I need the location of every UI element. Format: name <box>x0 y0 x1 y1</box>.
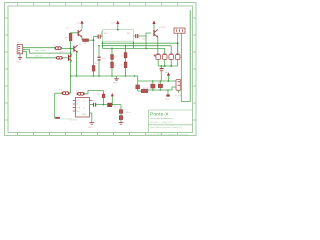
bus left end down to C5 <box>70 76 72 93</box>
wire X2 pin2 down right loop <box>180 33 182 101</box>
frame outer border <box>5 3 197 136</box>
svg-text:GND: GND <box>113 82 118 84</box>
output node wire <box>158 65 178 67</box>
output wire to pot chain <box>96 104 121 106</box>
right outer loop wire <box>181 10 190 102</box>
wire R1 top to Q1 base <box>71 32 78 34</box>
wire C6 right up to y90.5 line <box>85 91 104 94</box>
svg-text:Revisão 2 - Julho/2012: Revisão 2 - Julho/2012 <box>150 121 172 124</box>
wire pwm_lo with jog <box>23 52 56 58</box>
diode D6 between relay wires <box>151 81 155 90</box>
svg-text:GND: GND <box>88 127 93 129</box>
wire pwm top <box>23 47 55 49</box>
wire R1 bottom down across nets <box>70 41 72 76</box>
svg-text:pwm_lo: pwm_lo <box>35 56 43 58</box>
svg-text:(Data) (Hora) [Tamanho] (Sheet: (Data) (Hora) [Tamanho] (Sheet 1/1) <box>150 126 182 129</box>
svg-text:+12V: +12V <box>111 22 116 24</box>
capacitor C5 (two rings) <box>60 90 70 95</box>
svg-text:100k lin: 100k lin <box>124 112 131 114</box>
capacitor C6 (two rings) <box>76 90 85 95</box>
wire bus-end to C5 right <box>69 92 70 94</box>
IC1 right pin stub top <box>90 100 93 102</box>
connector JP2 <box>17 43 23 54</box>
node vertical x93.5 <box>93 37 95 66</box>
vcc arrow near output <box>111 93 114 105</box>
inductor L2 (two rings) <box>56 56 63 59</box>
svg-text:IC1 555: IC1 555 <box>70 119 78 121</box>
ring stems to output node <box>158 59 178 66</box>
resistor R1 vertical <box>65 28 72 41</box>
capacitor C2 right of box <box>134 34 147 40</box>
svg-text:THR: THR <box>76 107 81 109</box>
resistor R5 on stem <box>98 91 105 105</box>
resistor R8 between relay wires <box>157 81 162 90</box>
wire C5 left to label stem <box>55 92 62 94</box>
svg-text:10k: 10k <box>65 37 68 39</box>
svg-text:+12V: +12V <box>76 23 81 25</box>
vcc arrow above IC <box>111 20 119 30</box>
svg-text:printed with EAGLE free versio: printed with EAGLE free version www.cads… <box>146 133 189 136</box>
wire pwm mid with jog <box>23 50 71 54</box>
variable resistor X symbol <box>108 103 117 109</box>
relay wire upper <box>138 80 176 82</box>
IC box (pale) <box>103 30 134 42</box>
inductor L1 (two rings) <box>54 45 63 53</box>
IC1 bottom right wire to ground <box>88 113 94 129</box>
junction dots relay wires <box>152 80 154 82</box>
column x112 diode+resistor <box>111 48 118 76</box>
svg-text:D6: D6 <box>151 83 153 85</box>
resistor R4 <box>138 89 148 92</box>
column x99 capacitor <box>98 45 106 76</box>
svg-text:pwm_midrv: pwm_midrv <box>35 49 47 52</box>
vcc arrow to relay <box>167 72 170 81</box>
wire W2 <box>103 45 172 47</box>
label stem left of 555 <box>54 93 56 118</box>
wires from IC bottom to rings <box>102 41 104 48</box>
relay wire lower <box>148 87 176 90</box>
bus junctions <box>70 75 72 77</box>
title block frame <box>149 110 193 133</box>
wire W3 <box>103 48 165 50</box>
wire W1 <box>103 42 178 44</box>
net label tag monostavel <box>55 117 72 120</box>
column x125.5 diode+resistor <box>121 45 127 76</box>
junction R2/node <box>93 39 95 41</box>
junction R1/pwm_hi <box>70 48 72 50</box>
wire Q4 emitter down to ring1 <box>157 37 159 54</box>
svg-text:K1 12V: K1 12V <box>175 95 182 97</box>
frame inner border <box>8 6 193 133</box>
wire L2 to Q3 base <box>63 57 68 59</box>
wire Q1 emitter down <box>81 37 83 40</box>
transistor Q3 <box>62 53 72 61</box>
svg-text:100n: 100n <box>102 58 106 60</box>
svg-text:R8: R8 <box>157 83 159 85</box>
svg-text:R9: R9 <box>54 45 56 47</box>
wire X2 pin1 down to ring4 <box>177 33 179 53</box>
wire R2 to node <box>89 39 94 41</box>
svg-text:2k2: 2k2 <box>84 43 87 45</box>
svg-text:Ponte-X: Ponte-X <box>150 112 169 118</box>
frame ticks <box>5 3 197 136</box>
resistor R3 on x93.5 <box>92 63 98 71</box>
capacitor C1 <box>90 32 103 39</box>
wire Q2 emitter down to bus <box>76 52 78 76</box>
svg-text:GND: GND <box>82 114 87 116</box>
ground under relay wire <box>165 90 170 101</box>
capacitor C3 below output <box>160 66 168 81</box>
svg-text:GND: GND <box>16 61 21 63</box>
transistor Q1 <box>78 30 83 38</box>
transistor Q4 <box>145 27 166 39</box>
terminal block X2 <box>174 28 185 33</box>
svg-text:BC337: BC337 <box>159 27 166 29</box>
wire from C2 down/up to Q4 base <box>146 33 151 49</box>
svg-text:100n: 100n <box>164 72 168 74</box>
vcc arrow above Q4 <box>152 20 155 30</box>
ring pads M1..M4 <box>154 54 180 60</box>
relay K1 <box>175 80 182 97</box>
transistor Q2 <box>73 44 81 52</box>
ground under pot chain <box>119 123 124 125</box>
resistor R2 horizontal <box>83 39 89 42</box>
IC1 555 box <box>70 98 90 122</box>
wire L1 to Q2 base <box>62 47 74 49</box>
diode D2 on left branch <box>136 81 149 91</box>
ground on bus <box>113 76 119 84</box>
ground under connector <box>16 54 22 64</box>
svg-text:www.mecatronicadegaragem.com.b: www.mecatronicadegaragem.com.br <box>150 117 174 120</box>
horizontal bus wire y76 <box>71 75 138 77</box>
capacitor C4 on output wire <box>90 103 97 107</box>
svg-text:GND: GND <box>165 99 170 101</box>
vcc arrow above Q1 <box>76 20 84 28</box>
IC1 left pin stubs <box>73 101 76 112</box>
pot chain down <box>119 105 131 123</box>
